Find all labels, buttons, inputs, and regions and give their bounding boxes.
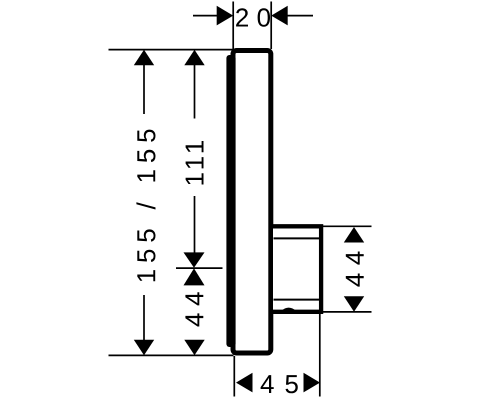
- dimension 111: lower line segment: [194, 196, 196, 253]
- dimension 44 right: top arrowhead: [344, 227, 364, 243]
- dimension 44 left: label text: [185, 292, 203, 326]
- dimension 111/44 shared bowtie: down arrowhead: [184, 252, 205, 267]
- valve body bottom flange line: [274, 299, 320, 301]
- dimension 45: right arrowhead: [304, 373, 321, 393]
- dimension 20: left arrowhead: [217, 6, 234, 26]
- escutcheon plate outline (side view): [233, 51, 271, 354]
- dimension 20: right arrowhead: [271, 6, 288, 26]
- dimension 45: label text: [261, 375, 298, 393]
- dimension 20: left extension line: [232, 2, 234, 50]
- dimension 155/155: top arrowhead: [134, 50, 154, 65]
- dimension 44 left: bottom arrowhead: [184, 340, 204, 356]
- dimension 44 right: top extension line: [321, 225, 372, 227]
- dimension 45: left arrowhead: [236, 373, 253, 393]
- valve body (side view): [273, 226, 321, 311]
- dimension 20: right extension line: [270, 2, 272, 50]
- dimension 155/155: label text: [136, 130, 155, 282]
- dimension 111/44 shared bowtie: horizontal line: [176, 267, 223, 269]
- dimension 155/155: bottom arrowhead: [134, 340, 154, 356]
- top extension line (left): [109, 49, 234, 51]
- valve body top flange line: [274, 237, 320, 239]
- dimension 20: label text: [236, 8, 270, 27]
- dimension 111: upper line segment: [194, 64, 196, 119]
- bottom extension line (left): [109, 354, 234, 356]
- dimension 155/155: lower line segment: [143, 295, 145, 341]
- dimension 20: left tail line: [193, 15, 218, 17]
- dimension 111/44 shared bowtie: up arrowhead: [184, 268, 205, 285]
- dimension 111: top arrowhead: [184, 50, 204, 65]
- dimension 45: left extension line: [233, 356, 235, 397]
- plate front face bar: [226, 55, 235, 347]
- dimension 155/155: upper line segment: [143, 64, 145, 114]
- valve body bottom bump detail: [282, 308, 297, 311]
- dimension 44 right: bottom extension line: [321, 311, 372, 313]
- dimension 44 right: bottom arrowhead: [344, 296, 364, 312]
- dimension 45: right extension line: [319, 314, 321, 397]
- dimension 44 right: label text: [346, 252, 364, 287]
- dimension 111: label text: [186, 141, 204, 185]
- dimension 20: right tail line: [287, 15, 314, 17]
